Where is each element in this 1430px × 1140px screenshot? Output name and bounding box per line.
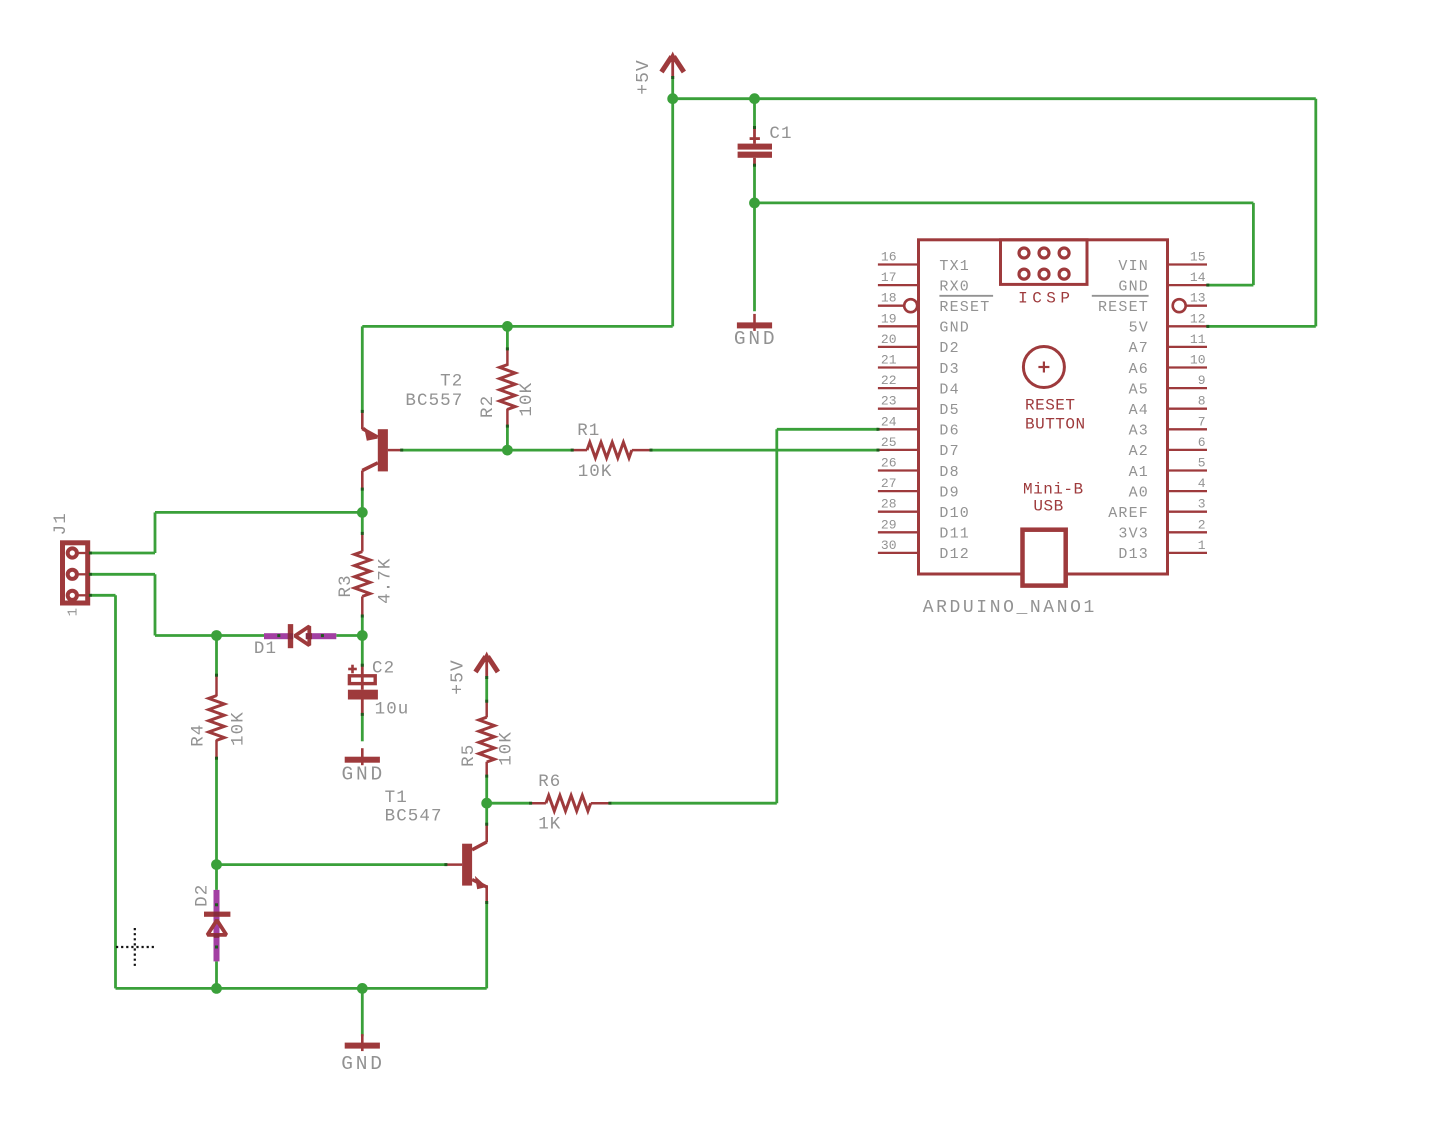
wire <box>361 490 364 532</box>
wire <box>506 326 509 347</box>
svg-text:28: 28 <box>881 497 897 512</box>
svg-text:R1: R1 <box>577 421 600 441</box>
svg-text:GND: GND <box>342 764 386 786</box>
svg-text:R3: R3 <box>336 574 356 597</box>
wire <box>116 987 487 990</box>
svg-text:10: 10 <box>1190 353 1206 368</box>
junction <box>481 798 492 809</box>
svg-text:USB: USB <box>1033 498 1063 516</box>
svg-text:20: 20 <box>881 332 897 347</box>
svg-text:+5V: +5V <box>634 59 654 94</box>
svg-text:R2: R2 <box>478 395 498 418</box>
wire <box>671 99 674 327</box>
wire <box>215 759 218 864</box>
svg-text:C1: C1 <box>769 124 792 144</box>
wire <box>215 865 218 890</box>
svg-text:BC547: BC547 <box>385 807 443 827</box>
ground GND (C2) <box>342 748 386 785</box>
resistor R3 4.7K <box>336 532 395 618</box>
svg-text:A2: A2 <box>1129 443 1149 460</box>
junction <box>211 983 222 994</box>
wire <box>215 636 218 675</box>
svg-text:T1: T1 <box>385 788 408 808</box>
wire <box>485 777 488 823</box>
svg-text:D6: D6 <box>939 423 959 440</box>
svg-text:A1: A1 <box>1129 464 1149 481</box>
svg-text:1K: 1K <box>538 815 561 835</box>
wire <box>361 716 364 742</box>
resistor R6 1K <box>529 772 611 835</box>
U1 reset button <box>1023 347 1085 434</box>
resistor R1 10K <box>571 421 653 482</box>
svg-text:A3: A3 <box>1129 423 1149 440</box>
svg-text:29: 29 <box>881 517 897 532</box>
wire <box>652 449 878 452</box>
svg-text:21: 21 <box>881 353 897 368</box>
wire <box>485 678 488 701</box>
svg-text:27: 27 <box>881 476 897 491</box>
svg-text:6: 6 <box>1198 435 1206 450</box>
wire <box>753 166 756 203</box>
svg-text:9: 9 <box>1198 373 1206 388</box>
svg-text:D2: D2 <box>939 340 959 357</box>
transistor T1 BC547 <box>385 788 489 904</box>
wire <box>217 863 445 866</box>
connector J1 <box>51 512 92 616</box>
junction <box>502 321 513 332</box>
resistor R4 10K <box>188 674 248 760</box>
junction <box>749 198 760 209</box>
svg-text:A5: A5 <box>1129 381 1149 398</box>
wire <box>673 97 1316 100</box>
svg-text:12: 12 <box>1190 311 1206 326</box>
svg-text:D7: D7 <box>939 443 959 460</box>
svg-text:23: 23 <box>881 394 897 409</box>
wire <box>775 429 778 803</box>
svg-text:D8: D8 <box>939 464 959 481</box>
svg-text:10u: 10u <box>375 700 410 720</box>
svg-text:25: 25 <box>881 435 897 450</box>
wire <box>755 201 1254 204</box>
wire <box>92 573 155 576</box>
svg-text:R5: R5 <box>459 744 479 767</box>
svg-text:J1: J1 <box>51 512 71 535</box>
wire <box>92 594 116 597</box>
IC U1 ARDUINO_NANO1 body <box>919 240 1168 574</box>
svg-text:D5: D5 <box>939 402 959 419</box>
wire <box>154 512 157 553</box>
wire <box>155 634 264 637</box>
svg-text:GND: GND <box>1118 278 1149 295</box>
resistor R5 10K <box>459 700 516 778</box>
wire <box>487 802 530 805</box>
resistor R2 10K <box>478 347 537 427</box>
svg-text:R6: R6 <box>538 772 561 792</box>
wire <box>1252 203 1255 285</box>
svg-text:19: 19 <box>881 311 897 326</box>
wire <box>361 636 364 665</box>
junction <box>667 93 678 104</box>
wire <box>777 428 878 431</box>
wire <box>362 325 672 328</box>
wire <box>1207 284 1253 287</box>
wire <box>361 326 364 410</box>
junction <box>749 93 760 104</box>
svg-text:4: 4 <box>1198 476 1206 491</box>
svg-text:A7: A7 <box>1129 340 1149 357</box>
svg-text:VIN: VIN <box>1118 258 1149 275</box>
wire <box>1207 325 1316 328</box>
svg-text:D4: D4 <box>939 381 959 398</box>
svg-text:13: 13 <box>1190 291 1206 306</box>
svg-text:+5V: +5V <box>448 659 468 694</box>
svg-text:D2: D2 <box>193 884 213 907</box>
svg-text:D1: D1 <box>254 639 277 659</box>
power +5V (at R5) <box>448 652 498 695</box>
wire <box>336 634 362 637</box>
svg-text:A4: A4 <box>1129 402 1149 419</box>
junction <box>502 445 513 456</box>
svg-text:7: 7 <box>1198 414 1206 429</box>
svg-text:R4: R4 <box>188 724 208 747</box>
diode D2 <box>193 884 231 962</box>
junction <box>357 630 368 641</box>
svg-text:22: 22 <box>881 373 897 388</box>
svg-text:5V: 5V <box>1129 320 1149 337</box>
svg-text:1: 1 <box>66 607 82 617</box>
U1 ICSP header <box>1001 240 1088 308</box>
ground GND (bottom rail) <box>341 1034 385 1075</box>
svg-text:8: 8 <box>1198 394 1206 409</box>
svg-text:16: 16 <box>881 250 897 265</box>
svg-text:30: 30 <box>881 538 897 553</box>
svg-text:RESET: RESET <box>939 299 990 316</box>
svg-text:C2: C2 <box>372 659 395 679</box>
svg-text:A0: A0 <box>1129 484 1149 501</box>
svg-text:ARDUINO_NANO1: ARDUINO_NANO1 <box>923 598 1097 618</box>
svg-text:5: 5 <box>1198 456 1206 471</box>
svg-text:18: 18 <box>881 291 897 306</box>
svg-text:3: 3 <box>1198 497 1206 512</box>
wire <box>753 99 756 127</box>
svg-text:TX1: TX1 <box>939 258 970 275</box>
wire <box>155 511 362 514</box>
capacitor C1 <box>738 124 793 167</box>
svg-text:RESET: RESET <box>1098 299 1149 316</box>
svg-text:AREF: AREF <box>1108 505 1149 522</box>
svg-text:10K: 10K <box>229 711 249 746</box>
ground GND (C1) <box>734 314 778 350</box>
junction <box>211 630 222 641</box>
power +5V (top) <box>634 52 684 95</box>
svg-text:14: 14 <box>1190 270 1206 285</box>
wire <box>215 961 218 988</box>
svg-text:GND: GND <box>341 1053 385 1075</box>
wire <box>671 76 674 99</box>
svg-text:17: 17 <box>881 270 897 285</box>
wire <box>403 449 571 452</box>
svg-text:GND: GND <box>734 328 778 350</box>
svg-text:11: 11 <box>1190 332 1206 347</box>
wire <box>361 617 364 635</box>
svg-text:A6: A6 <box>1129 361 1149 378</box>
svg-text:15: 15 <box>1190 250 1206 265</box>
junction <box>357 507 368 518</box>
svg-text:D11: D11 <box>939 526 970 543</box>
svg-text:D12: D12 <box>939 546 970 563</box>
svg-text:Mini-B: Mini-B <box>1023 481 1084 499</box>
svg-text:4.7K: 4.7K <box>375 557 395 603</box>
svg-text:D13: D13 <box>1118 546 1149 563</box>
junction <box>357 983 368 994</box>
svg-text:BUTTON: BUTTON <box>1025 416 1086 434</box>
U1 pin numbers <box>881 250 1206 553</box>
svg-text:10K: 10K <box>517 382 537 417</box>
svg-text:24: 24 <box>881 414 897 429</box>
cursor crosshair <box>116 928 155 968</box>
svg-text:3V3: 3V3 <box>1118 526 1149 543</box>
svg-text:1: 1 <box>1198 538 1206 553</box>
wire <box>506 427 509 450</box>
junction <box>211 859 222 870</box>
wire <box>154 574 157 635</box>
U1 pin names <box>939 258 1149 563</box>
svg-text:BC557: BC557 <box>405 391 463 411</box>
wire <box>114 595 117 988</box>
wire <box>753 203 756 311</box>
wire <box>92 552 155 555</box>
svg-text:RX0: RX0 <box>939 278 970 295</box>
U1 Mini-B USB <box>1023 481 1084 586</box>
U1 name ARDUINO_NANO1 <box>923 598 1097 618</box>
wire <box>485 904 488 989</box>
svg-text:GND: GND <box>939 320 970 337</box>
diode D1 <box>254 624 336 659</box>
svg-text:10K: 10K <box>496 731 516 766</box>
U1 pin stubs <box>878 265 1207 553</box>
transistor T2 BC557 <box>361 372 464 491</box>
wire <box>611 802 777 805</box>
svg-text:ICSP: ICSP <box>1018 290 1074 308</box>
svg-text:RESET: RESET <box>1025 397 1076 415</box>
svg-text:D10: D10 <box>939 505 970 522</box>
wire <box>1314 99 1317 327</box>
svg-text:2: 2 <box>1198 517 1206 532</box>
pin connection marks <box>877 428 880 431</box>
capacitor C2 <box>348 659 410 720</box>
svg-text:T2: T2 <box>440 372 463 392</box>
wire <box>361 988 364 1036</box>
svg-text:26: 26 <box>881 456 897 471</box>
svg-text:D3: D3 <box>939 361 959 378</box>
svg-text:10K: 10K <box>578 462 613 482</box>
svg-text:D9: D9 <box>939 484 959 501</box>
